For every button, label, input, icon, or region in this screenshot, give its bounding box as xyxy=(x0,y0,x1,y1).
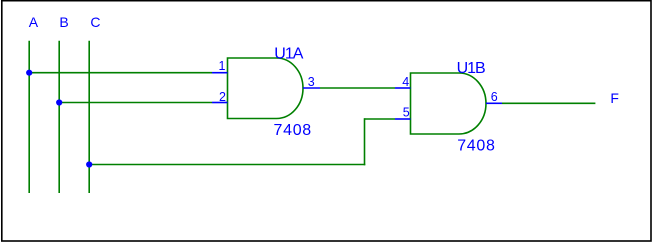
svg-text:F: F xyxy=(610,90,619,106)
and-gate U1B body xyxy=(411,73,486,134)
wire: C horizontal run xyxy=(89,164,365,166)
U1A pin 2 lead xyxy=(212,102,228,104)
and-gate U1A body xyxy=(228,58,304,119)
wire: net A vertical bus xyxy=(28,41,30,193)
wire: B to U1A pin 2 xyxy=(59,102,212,104)
svg-text:4: 4 xyxy=(402,75,409,89)
U1B pin 4 lead xyxy=(395,87,411,89)
svg-text:7408: 7408 xyxy=(457,138,495,155)
wire: C riser to pin 5 level xyxy=(364,118,366,165)
U1B pin 5 lead xyxy=(395,118,411,120)
svg-text:C: C xyxy=(90,14,100,30)
junction dot on net A xyxy=(26,70,32,76)
svg-text:5: 5 xyxy=(403,106,410,120)
svg-text:2: 2 xyxy=(219,90,226,104)
U1B pin 6 lead xyxy=(486,102,502,104)
wire: A to U1A pin 1 xyxy=(29,72,212,74)
wire: net B vertical bus xyxy=(58,41,60,193)
svg-text:A: A xyxy=(29,14,39,30)
wire: net C vertical bus xyxy=(88,41,90,193)
svg-text:1: 1 xyxy=(219,59,226,73)
svg-text:6: 6 xyxy=(491,90,498,104)
svg-text:B: B xyxy=(59,14,68,30)
svg-text:U1A: U1A xyxy=(274,46,303,63)
svg-text:7408: 7408 xyxy=(274,122,312,139)
junction dot on net B xyxy=(56,99,62,105)
svg-text:U1B: U1B xyxy=(457,60,485,77)
wire: riser to U1B pin 5 xyxy=(365,118,396,120)
wire: U1B pin 6 to F xyxy=(502,102,595,104)
U1A pin 1 lead xyxy=(212,72,228,74)
svg-text:3: 3 xyxy=(308,75,315,89)
U1A pin 3 lead xyxy=(303,87,320,89)
wire: U1A pin 3 to U1B pin 4 xyxy=(320,87,395,89)
junction dot on net C xyxy=(86,161,92,167)
